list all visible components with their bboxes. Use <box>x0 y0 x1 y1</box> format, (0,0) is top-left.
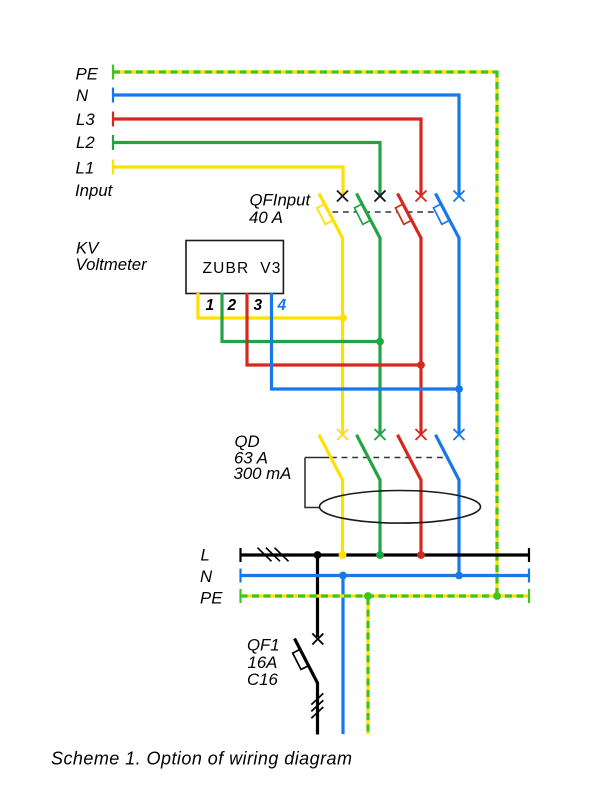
svg-text:PE: PE <box>76 65 99 84</box>
RCD QD differential transformer ellipse <box>320 491 481 524</box>
breaker QFInput pole 1 release rectangle <box>317 204 332 224</box>
pin 3 wire (red) to L3 node <box>247 293 421 365</box>
breaker QFInput pole 2 blade <box>357 194 381 239</box>
terminal tick L3 input <box>112 112 114 127</box>
breaker QFInput pole 3 release rectangle <box>395 204 410 224</box>
svg-text:3: 3 <box>254 297 263 314</box>
bus N left end tick <box>239 569 241 583</box>
bus PE right end tick <box>528 589 530 603</box>
RCD QD mechanical linkage (dashed) <box>331 457 449 459</box>
junction dot QF1 tap on L bus <box>314 551 322 559</box>
wire PE right vertical (yellow base) <box>495 72 498 596</box>
svg-text:L2: L2 <box>76 133 95 152</box>
svg-text:Input: Input <box>75 181 114 200</box>
junction dot L1 on L bus <box>339 551 347 559</box>
wire PE drop green dashes <box>366 598 369 734</box>
bus PE left end tick <box>239 589 241 603</box>
breaker QFInput mechanical linkage (dashed) <box>332 211 446 213</box>
junction dot PE drop on PE bus <box>364 592 372 600</box>
RCD QD linkage solid lead from bracket <box>305 457 331 459</box>
wire QF1 output <box>316 682 319 735</box>
contact X QD pole 3 <box>416 429 427 440</box>
svg-text:QF1: QF1 <box>247 636 280 655</box>
bus L conductor-count slashes <box>258 548 289 562</box>
RCD QD trip bracket <box>305 458 320 508</box>
contact X QFInput pole 2 <box>375 191 386 202</box>
svg-text:4: 4 <box>277 297 287 314</box>
bus L left end tick <box>239 548 241 562</box>
svg-text:L1: L1 <box>76 159 95 178</box>
junction dot L2 on L bus <box>376 551 384 559</box>
wire N drop from N bus <box>341 576 344 735</box>
wire L3 pole vertical below QFInput <box>419 237 422 434</box>
breaker QF1 release rectangle <box>293 649 308 669</box>
wire QD N output to N bus <box>457 479 460 576</box>
contact X QFInput pole 1 <box>337 191 348 202</box>
wire QD L2 output to L bus <box>378 479 381 555</box>
junction dot N drop on N bus <box>339 572 347 580</box>
pin 2 wire (green) to L2 node <box>222 293 380 342</box>
wire L3 input horizontal <box>113 119 421 195</box>
junction dot PE right on PE bus <box>493 592 501 600</box>
junction dot L1/pin1 <box>339 314 347 322</box>
bus N right end tick <box>528 569 530 583</box>
junction dot QD N on N bus <box>455 572 463 580</box>
svg-text:40 A: 40 A <box>249 208 283 227</box>
junction dot N/pin4 <box>455 385 463 393</box>
terminal tick L1 input <box>112 160 114 175</box>
breaker QFInput pole 3 blade <box>398 194 422 239</box>
svg-text:N: N <box>76 86 89 105</box>
RCD QD pole 4 blade <box>436 435 460 480</box>
svg-text:Voltmeter: Voltmeter <box>76 255 149 274</box>
junction dot L3/pin3 <box>417 361 425 369</box>
wire L1 pole vertical below QFInput <box>341 237 344 434</box>
junction dot L3 on L bus <box>417 551 425 559</box>
breaker QFInput pole 4 release rectangle <box>433 204 448 224</box>
breaker QFInput pole 4 blade <box>436 194 460 239</box>
RCD QD pole 3 blade <box>398 435 422 480</box>
bus L right end tick <box>528 548 530 562</box>
contact X QD pole 1 <box>337 429 348 440</box>
wire QD L1 output to L bus <box>341 479 344 555</box>
contact X QFInput pole 3 <box>416 191 427 202</box>
wire N pole vertical below QFInput <box>457 237 460 434</box>
svg-text:ZUBR V3: ZUBR V3 <box>203 260 282 277</box>
QF1 output conductor slashes <box>311 693 323 718</box>
contact X QD pole 4 <box>454 429 465 440</box>
svg-text:N: N <box>200 567 213 586</box>
pin 1 wire (yellow) to L1 node <box>198 293 343 318</box>
svg-text:PE: PE <box>200 588 223 607</box>
wire PE drop from PE bus (yellow base) <box>366 596 369 734</box>
contact X QFInput pole 4 <box>454 191 465 202</box>
wire L2 input horizontal <box>113 143 380 196</box>
svg-text:300 mA: 300 mA <box>234 464 292 483</box>
svg-text:L3: L3 <box>76 110 95 129</box>
breaker QFInput pole 2 release rectangle <box>354 204 369 224</box>
wire QD L3 output to L bus <box>419 479 422 555</box>
wire PE right vertical green dashes <box>495 71 498 597</box>
wire L2 pole vertical below QFInput <box>378 237 381 434</box>
terminal tick N input <box>112 88 114 103</box>
svg-text:1: 1 <box>206 297 215 314</box>
bus PE (yellow base) <box>241 594 530 597</box>
svg-text:Scheme 1. Option of wiring dia: Scheme 1. Option of wiring diagram <box>51 749 352 769</box>
voltmeter box U1 ZUBR V3 <box>186 241 283 294</box>
contact X QD pole 2 <box>375 429 386 440</box>
breaker QFInput pole 1 blade <box>319 194 343 239</box>
bus L (black) <box>241 553 530 556</box>
svg-text:2: 2 <box>227 297 237 314</box>
bus PE green dashes <box>241 594 530 597</box>
wire L bus tap to QF1 <box>316 555 319 637</box>
contact X QF1 <box>312 634 323 645</box>
bus N (blue) <box>241 574 530 577</box>
breaker QF1 blade <box>295 639 318 684</box>
wire PE input horizontal (yellow base) <box>113 70 497 73</box>
junction dot L2/pin2 <box>376 338 384 346</box>
RCD QD pole 1 blade <box>319 435 343 480</box>
RCD QD pole 2 blade <box>357 435 381 480</box>
svg-text:L: L <box>201 546 210 565</box>
wire L1 input horizontal <box>113 167 343 195</box>
pin 4 wire (blue) to N node <box>272 293 460 389</box>
svg-text:QFInput: QFInput <box>250 191 312 210</box>
wire PE input horizontal green dashes <box>113 70 497 73</box>
terminal tick PE input <box>112 65 114 80</box>
wire N input horizontal <box>113 95 459 195</box>
terminal tick L2 input <box>112 135 114 150</box>
svg-text:C16: C16 <box>247 670 278 689</box>
